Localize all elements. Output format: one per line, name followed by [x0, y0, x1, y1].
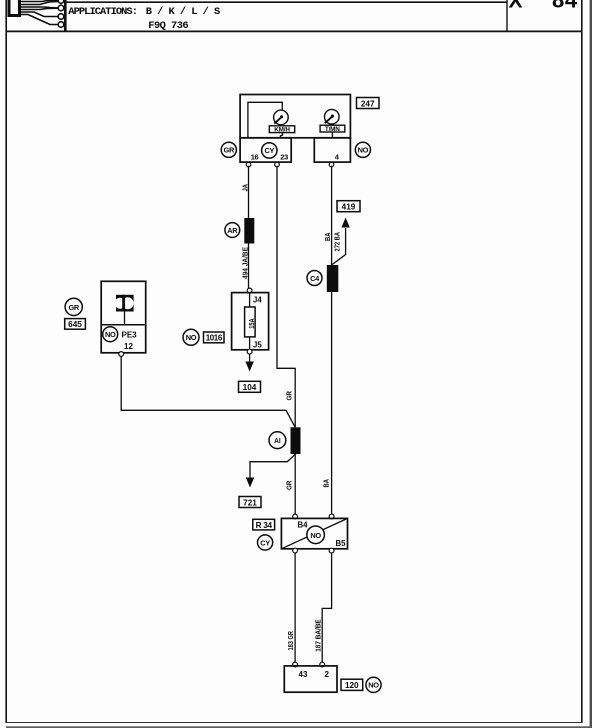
- svg-text:APPLICATIONS:: APPLICATIONS:: [68, 6, 137, 18]
- connector code GR (sensor): [65, 298, 82, 315]
- label box 645: [65, 319, 86, 330]
- speed sensor 645 box: [101, 281, 146, 356]
- wire 494 JA/BE: [248, 244, 250, 289]
- svg-text:B5: B5: [336, 539, 347, 548]
- svg-text:187 BA/BE: 187 BA/BE: [313, 619, 322, 652]
- svg-text:247: 247: [361, 99, 375, 108]
- connector code CY (cluster): [262, 143, 277, 158]
- svg-text:43: 43: [299, 670, 308, 679]
- wire GR from pin 23: [277, 166, 295, 428]
- label box 104: [239, 381, 261, 392]
- svg-text:645: 645: [68, 320, 82, 329]
- svg-text:NO: NO: [368, 681, 379, 690]
- wire JA from pin 16: [248, 166, 250, 218]
- svg-text:1016: 1016: [206, 334, 223, 343]
- connector code NO (120): [366, 677, 381, 692]
- svg-text:84: 84: [552, 0, 578, 13]
- connector C4 (black): [327, 265, 339, 292]
- svg-text:15A: 15A: [249, 318, 256, 329]
- connector AI (black): [291, 427, 301, 454]
- svg-text:GR: GR: [68, 303, 79, 312]
- svg-text:F9Q 736: F9Q 736: [148, 20, 188, 32]
- wire 183 GR: [294, 553, 296, 664]
- internal wire loop in 247: [248, 102, 282, 138]
- svg-text:NO: NO: [310, 531, 321, 540]
- svg-text:J5: J5: [253, 340, 262, 349]
- svg-text:BA: BA: [323, 233, 332, 242]
- svg-text:104: 104: [243, 383, 257, 392]
- control unit box (bottom): [284, 662, 337, 692]
- connector AR (black): [244, 218, 254, 244]
- svg-text:NO: NO: [186, 333, 197, 342]
- wire BA to relay: [331, 292, 333, 515]
- connector code NO (relay): [307, 526, 325, 544]
- svg-text:CY: CY: [260, 538, 270, 547]
- svg-text:120: 120: [345, 681, 359, 690]
- svg-text:AR: AR: [227, 226, 238, 235]
- svg-text:2: 2: [325, 670, 330, 679]
- sensor symbol (target wheel): [115, 295, 134, 312]
- wire 187 BA/BE: [322, 553, 331, 664]
- svg-text:16: 16: [251, 153, 259, 162]
- connector code AI: [269, 432, 286, 449]
- svg-text:GR: GR: [284, 480, 293, 490]
- svg-text:J4: J4: [253, 295, 262, 304]
- branch wire 272 BA to 419: [332, 228, 346, 265]
- wire from sensor 645 joining AI: [121, 356, 295, 428]
- svg-text:BA: BA: [321, 479, 330, 488]
- svg-text:KM/H: KM/H: [274, 127, 290, 134]
- gauge T/MN (tachometer): [320, 109, 345, 137]
- gauge KM/H (speedometer): [269, 110, 294, 138]
- svg-text:GR: GR: [224, 146, 235, 155]
- arrow to earth 104: [245, 354, 253, 372]
- svg-text:272 BA: 272 BA: [332, 232, 341, 252]
- svg-text:X: X: [509, 0, 523, 13]
- svg-text:B4: B4: [298, 521, 309, 530]
- svg-text:494 JA/BE: 494 JA/BE: [240, 247, 249, 279]
- logo wiring-harness icon: [9, 0, 64, 27]
- svg-text:183 GR: 183 GR: [286, 630, 295, 650]
- svg-text:PE3: PE3: [122, 330, 138, 339]
- svg-text:JA: JA: [240, 184, 249, 192]
- connector code NO (sensor): [103, 327, 118, 342]
- svg-text:419: 419: [342, 203, 356, 212]
- svg-text:CY: CY: [264, 146, 274, 155]
- arrow to earth 721: [246, 478, 254, 488]
- wire BA from pin 4: [331, 166, 333, 265]
- branch wire to earth 721: [250, 455, 295, 479]
- label box 247: [357, 98, 380, 109]
- label box 721: [239, 497, 261, 508]
- svg-text:T/MN: T/MN: [325, 126, 340, 133]
- connector code GR (cluster left): [221, 142, 236, 157]
- svg-text:23: 23: [280, 153, 288, 162]
- label box 419: [337, 201, 360, 212]
- connector code NO (cluster right): [355, 142, 370, 157]
- fuse holder box J4/J5: [232, 288, 269, 354]
- svg-text:721: 721: [243, 498, 257, 507]
- connector code C4: [307, 271, 322, 286]
- svg-text:R 34: R 34: [256, 521, 273, 530]
- pin bumps under cluster: [246, 162, 334, 167]
- connector code CY (relay): [258, 535, 273, 550]
- arrow to 419: [341, 218, 349, 228]
- connector code NO (fuse): [183, 329, 199, 345]
- instrument cluster 247 box: [240, 95, 350, 163]
- svg-text:GR: GR: [284, 390, 293, 400]
- svg-text:C4: C4: [310, 274, 320, 283]
- svg-text:12: 12: [124, 342, 133, 351]
- label box 120: [341, 679, 363, 690]
- svg-text:NO: NO: [358, 146, 369, 155]
- label box R 34: [253, 519, 275, 530]
- relay interconnection R 34: [281, 514, 347, 553]
- svg-text:AI: AI: [274, 436, 281, 445]
- svg-text:B / K / L / S: B / K / L / S: [146, 6, 220, 18]
- svg-text:NO: NO: [105, 330, 116, 339]
- label box 1016: [204, 332, 225, 343]
- wire GR below AI to relay: [294, 454, 296, 515]
- connector code AR: [225, 223, 240, 238]
